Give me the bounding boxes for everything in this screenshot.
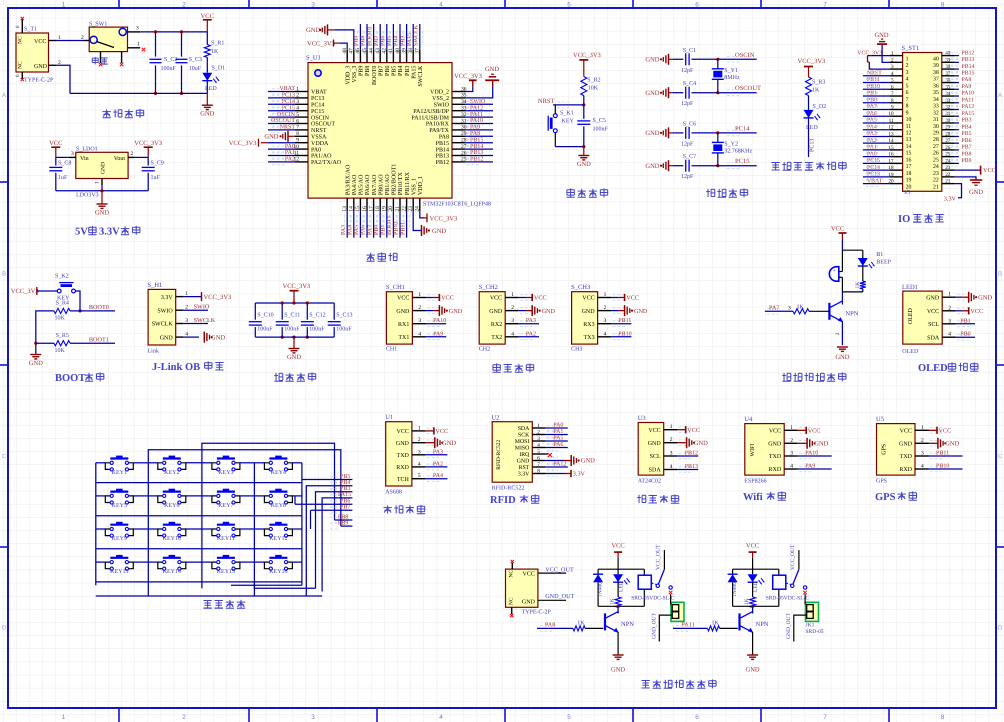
svg-text:VCC_OUT: VCC_OUT [655,544,661,570]
wire net PB10 ST1 left [863,88,890,90]
svg-text:GND: GND [581,458,595,465]
svg-text:PA12/USB/DP: PA12/USB/DP [413,109,449,115]
svg-text:3: 3 [71,151,74,157]
svg-text:KEY11: KEY11 [217,536,235,542]
ground GND relay [747,654,758,656]
svg-text:100nF: 100nF [336,327,352,333]
svg-text:PA7: PA7 [769,305,779,312]
svg-text:KEY12: KEY12 [269,536,287,542]
ground GND U5 [929,442,938,444]
ST1 pin 9 [890,108,903,110]
U1 pin 15 PA5/AO [359,198,361,211]
svg-text:S_C4: S_C4 [683,81,696,87]
svg-text:VCC_OUT: VCC_OUT [545,567,574,574]
svg-text:1: 1 [418,425,421,431]
svg-text:3.3V: 3.3V [161,295,174,301]
S_SW1 pin 2 stub [84,40,89,42]
power VCC CH1 [426,297,433,299]
svg-text:VCC: VCC [746,543,759,550]
svg-text:100nF: 100nF [593,127,609,133]
svg-text:GPS: GPS [876,479,887,485]
ST1 pin 5 [890,82,903,84]
svg-text:IO: IO [898,214,910,225]
svg-text:RFID: RFID [490,495,516,506]
svg-text:SCL: SCL [928,322,939,328]
svg-text:23: 23 [933,171,939,177]
svg-text:VCC_3V3: VCC_3V3 [573,52,601,59]
wire net PC13 ST1 left [863,176,890,178]
svg-text:35: 35 [945,84,951,90]
ST1 pin 26 [942,149,955,151]
svg-text:7: 7 [296,125,299,131]
svg-text:VDD_2: VDD_2 [430,90,449,96]
relay output connector [671,602,684,621]
U1 pin 13 PA3/RX/AO [346,198,348,211]
ST1 pin 32 [942,108,955,110]
svg-text:GND: GND [396,441,410,447]
svg-text:TCH: TCH [397,477,410,483]
wire gnd to VSS_3 pin47 [335,30,354,50]
svg-text:Vin: Vin [80,156,89,162]
svg-text:RST: RST [519,465,530,471]
svg-text:GND: GND [899,442,913,448]
svg-text:8: 8 [941,2,945,9]
svg-text:2: 2 [131,151,134,157]
svg-text:C: C [2,453,7,460]
svg-text:1: 1 [296,86,299,92]
svg-text:21: 21 [933,184,939,190]
svg-text:35: 35 [933,90,939,96]
svg-text:SWCLK: SWCLK [152,322,174,328]
svg-text:S_C7: S_C7 [683,154,696,160]
LED relay indicator [752,569,754,574]
wire net PB8 top of U1 [366,24,368,50]
wire net PB1 oled [956,323,975,325]
svg-text:WIFI: WIFI [750,444,756,457]
svg-text:3: 3 [296,99,299,105]
title 存储模块 [638,495,640,503]
net PA3 U1 [425,454,447,456]
net 3.3V ST1 pin21 [955,184,962,198]
svg-text:12pF: 12pF [681,101,694,107]
svg-text:8: 8 [296,131,299,137]
svg-text:1: 1 [62,2,66,9]
wire net PA0 left of U1 [268,148,295,150]
svg-text:SDA: SDA [649,468,662,474]
svg-text:KEY7: KEY7 [218,503,233,509]
net PA10 U4 [798,455,832,457]
U1 pin 12 PA2/TX/AO [295,161,308,163]
U1 pin 34 SWIO [452,103,465,105]
wire net PA10 CH1 [426,323,446,325]
svg-text:U2: U2 [492,415,500,422]
svg-text:RXD: RXD [769,467,782,473]
svg-text:S_R5: S_R5 [56,333,69,339]
wire net PB10 CH3 [611,336,631,338]
U1 pin 40 PB4 [399,50,401,63]
key KEY8 [269,491,287,493]
svg-text:J-Link OB: J-Link OB [152,362,200,373]
svg-text:TX3: TX3 [584,335,595,341]
svg-text:VCC: VCC [927,309,939,315]
svg-text:33: 33 [933,104,939,110]
svg-text:1: 1 [891,51,894,57]
svg-text:22: 22 [401,206,407,212]
svg-text:10K: 10K [55,348,66,354]
wire S_C1 to net [692,58,757,60]
svg-text:17: 17 [906,164,912,170]
svg-text:U4: U4 [744,416,753,423]
ST1 pin 37 [942,75,955,77]
transistor NPN relay [604,613,606,630]
svg-text:TX2: TX2 [491,335,502,341]
svg-text:PB10: PB10 [867,84,880,90]
U1 pin 20 PB2/BOOT1 [392,198,394,211]
svg-text:KEY: KEY [562,119,575,125]
U1 pin 28 PB15 [452,142,465,144]
svg-text:1: 1 [95,181,101,184]
wire emitter relay to gnd [752,632,754,655]
svg-text:VCC: VCC [939,428,952,435]
svg-text:S_K2: S_K2 [55,274,69,280]
svg-text:PA8: PA8 [962,77,972,83]
wire net SWCLK [184,323,208,325]
wire base relay1 [585,627,603,629]
svg-text:32: 32 [945,104,951,110]
capacitor S_C11 100nF [281,303,283,320]
key KEY1 [110,457,128,459]
svg-text:15: 15 [906,151,912,157]
S_SW1 pin 3 stub [128,31,141,33]
svg-text:100nF: 100nF [161,66,177,72]
svg-text:4: 4 [418,331,421,337]
svg-text:22: 22 [933,178,939,184]
svg-text:2: 2 [182,714,186,721]
wire D1 to rail [206,81,208,94]
svg-text:U5: U5 [876,416,884,423]
svg-text:GND: GND [287,354,301,361]
wire GND_OUT [538,599,566,601]
wire cap C3 branch [181,32,183,57]
resistor S_R3 1K [806,77,812,96]
svg-text:8: 8 [906,104,909,110]
svg-text:KEY14: KEY14 [163,569,181,575]
svg-text:22: 22 [945,172,951,178]
svg-text:IRQ: IRQ [519,452,530,458]
svg-text:PB6: PB6 [385,66,391,76]
U1 pin 37 SWCLK [419,50,421,63]
ST1 pin 20 [890,183,903,185]
svg-text:40: 40 [945,51,951,57]
wire net PB9 top of U1 [359,24,361,50]
relay coil [643,569,645,575]
svg-text:NC: NC [18,61,24,69]
ST1 pin 27 [942,142,955,144]
svg-text:S_CH1: S_CH1 [386,284,405,291]
wire S_C7 to net [692,165,757,167]
wires buzzer contacts [839,271,843,273]
svg-text:9: 9 [906,110,909,116]
power VCC U1 [425,430,434,432]
U1 pin 16 PA6/AO [366,198,368,211]
power VCC CH2 [519,297,526,299]
wire net PA12 ST1 right [955,108,959,110]
ST1 pin 1 [890,55,903,57]
net PB10 U5 [929,468,963,470]
capacitor S_C1 12pF [685,53,687,65]
svg-text:S_C3: S_C3 [189,57,202,63]
svg-text:3: 3 [948,318,951,324]
ST1 pin 29 [942,129,955,131]
svg-text:S_CH2: S_CH2 [479,284,498,291]
svg-text:GND: GND [442,440,456,447]
svg-text:OSCIN: OSCIN [735,52,755,59]
title 声光报警电路 [783,373,785,381]
wire connector bottom pin GND_OUT [659,615,672,641]
svg-text:4: 4 [921,464,924,470]
wire net PA10 ST1 right [955,95,959,97]
svg-text:4: 4 [418,461,421,467]
svg-text:S_R3: S_R3 [812,80,825,86]
matrix row bottom lines [96,482,302,484]
svg-text:PB0/AO: PB0/AO [378,174,384,195]
svg-text:OLED: OLED [918,363,948,374]
svg-text:2: 2 [537,430,540,436]
resistor 1K relay led [752,582,754,597]
wire net PA6 ST1 left [863,115,890,117]
svg-text:2: 2 [418,437,421,443]
wire net PA8 right of U1 [465,135,493,137]
ST1 pin 34 [942,95,955,97]
svg-text:1: 1 [921,425,924,431]
wire VDD_1 to vcc [420,211,424,218]
svg-text:S_C9: S_C9 [151,161,164,167]
ST1 pin 2 [890,61,903,63]
wire net NRST left of U1 [268,129,295,131]
svg-text:4: 4 [439,714,443,721]
svg-text:PA1: PA1 [285,150,295,156]
svg-text:VCC: VCC [900,429,912,435]
svg-text:7: 7 [823,714,827,721]
svg-text:GND: GND [611,667,625,674]
svg-text:KEY5: KEY5 [112,503,127,509]
svg-text:S_T1: S_T1 [24,27,37,33]
U1 pin 18 PB0/AO [379,198,381,211]
net label PA11 [673,627,708,629]
ground GND U3 [677,442,686,444]
key KEY15 [217,557,235,559]
svg-text:PC14: PC14 [735,125,750,132]
svg-text:CH2: CH2 [479,347,490,353]
U1 pin 17 PA7/AO [373,198,375,211]
ST1 pin 17 [890,162,903,164]
svg-text:PC13: PC13 [311,96,324,102]
svg-text:3: 3 [418,449,421,455]
svg-text:PA0: PA0 [553,423,563,429]
svg-text:GND: GND [449,308,463,315]
svg-text:PB12: PB12 [436,160,449,166]
svg-text:PA9: PA9 [962,84,972,90]
svg-text:VDD_3: VDD_3 [345,66,351,85]
wire ldo gnd [101,185,103,190]
svg-text:PA8: PA8 [439,135,449,141]
ST1 pin 31 [942,115,955,117]
U1 pin 44 BOOT0 [373,50,375,63]
svg-text:NC: NC [509,597,515,605]
svg-text:21: 21 [395,206,401,212]
svg-text:GND: GND [969,189,983,196]
key KEY10 [163,524,181,526]
svg-text:PC15: PC15 [311,109,324,115]
ST1 pin 13 [890,135,903,137]
svg-text:VCC: VCC [831,226,844,233]
svg-text:5: 5 [906,83,909,89]
capacitor S_C10 100nF [254,303,256,320]
svg-text:GPS: GPS [882,444,888,455]
U1 pin 39 PB3 [406,50,408,63]
svg-text:32: 32 [933,110,939,116]
svg-text:GND_OUT: GND_OUT [545,593,574,600]
wire net BOOT1 bottom of U1 [392,211,394,238]
svg-text:LED: LED [619,581,625,592]
svg-text:PA4: PA4 [433,473,443,479]
svg-text:VCC_3V3: VCC_3V3 [307,41,335,48]
svg-text:PC14: PC14 [867,165,880,171]
svg-text:3.3V: 3.3V [99,227,120,238]
svg-text:VSS_3: VSS_3 [352,66,358,83]
matrix key stubs [96,462,106,464]
matrix bottom bus 1 [254,582,315,588]
svg-text:NPN: NPN [756,621,769,628]
svg-text:TX1: TX1 [398,335,409,341]
svg-text:BOOT0: BOOT0 [89,304,109,311]
svg-text:PA3: PA3 [526,318,536,324]
svg-text:2: 2 [948,305,951,311]
svg-text:S_H1: S_H1 [148,282,163,289]
svg-text:PB8: PB8 [338,514,348,520]
svg-text:GND: GND [432,228,446,235]
bottom rail ldo [56,190,148,192]
wire R5 to BOOT1 [70,342,115,344]
U1 pin 24 VDD_1 [419,198,421,211]
svg-text:5: 5 [537,449,540,455]
svg-text:PB3: PB3 [405,66,411,76]
svg-text:1K: 1K [855,282,861,289]
svg-text:1uF: 1uF [58,175,68,181]
svg-text:8: 8 [537,469,540,475]
U1 pin 21 PB10/TX [399,198,401,211]
svg-text:2: 2 [418,305,421,311]
wire net PB3 top of U1 [406,24,408,50]
matrix top wire 2 [148,450,340,526]
svg-text:VBAT: VBAT [867,178,883,184]
net PB13 U3 [677,469,698,471]
svg-text:12: 12 [906,131,912,137]
svg-text:30: 30 [945,118,951,124]
svg-text:TXD: TXD [900,454,913,460]
svg-text:6: 6 [695,714,699,721]
S_SW1 pin 1 stub with no-connect [128,47,141,49]
svg-text:VCC: VCC [397,429,409,435]
S_LDO1 pin 1 GND stub [101,179,103,186]
svg-text:NRST: NRST [538,98,555,105]
ST1 pin 6 [890,88,903,90]
svg-text:GND: GND [645,90,659,97]
svg-text:RFID-RC522: RFID-RC522 [496,440,502,470]
svg-text:38: 38 [933,70,939,76]
net VCC_3V3 ST1 pin1 [868,55,890,57]
svg-text:KEY4: KEY4 [271,470,286,476]
ST1 pin 14 [890,142,903,144]
resistor 1K alarm [862,266,864,281]
U1 pin 3 PC14 [295,103,308,105]
svg-text:GND: GND [694,440,708,447]
svg-text:32.768KHz: 32.768KHz [724,148,752,154]
svg-text:6: 6 [537,456,540,462]
svg-text:1K: 1K [211,49,219,55]
svg-text:KEY1: KEY1 [112,470,127,476]
capacitor S_C9 1uF [147,157,149,165]
svg-text:1: 1 [62,714,66,721]
wire T1 GND down to bottom rail [57,65,70,93]
svg-text:SWIO: SWIO [434,103,450,109]
power VCC CH3 [611,297,618,299]
svg-text:GND: GND [396,309,410,315]
svg-text:GND: GND [814,441,828,448]
transistor Q1 NPN alarm [828,303,830,320]
net label VCC_3V3 at VDDA pin9 [261,142,268,144]
svg-text:PB11/RX: PB11/RX [405,171,411,195]
svg-text:29: 29 [933,131,939,137]
svg-text:OLED: OLED [908,307,914,324]
svg-text:4: 4 [296,106,299,112]
svg-text:SDA: SDA [927,335,940,341]
svg-text:S_R4: S_R4 [56,301,69,307]
svg-text:GND: GND [160,335,174,341]
svg-text:KEY2: KEY2 [164,470,179,476]
svg-text:30: 30 [933,124,939,130]
wire connector bottom pin GND_OUT [794,615,807,641]
net PA9 U4 [798,468,832,470]
svg-text:GND: GND [746,667,760,674]
relay bottom rail [598,605,644,607]
ground GND CH2 [519,310,526,312]
svg-text:GND: GND [926,295,940,301]
U1 pin 33 PA12/USB/DP [452,110,465,112]
svg-text:MOSI: MOSI [515,439,530,445]
svg-text:VCC: VCC [687,427,700,434]
S_T1 no-connect pins [21,20,23,34]
U1 pin 23 VSS_1 [412,198,414,211]
relay top rail [733,568,779,570]
net label PB6 wire [295,503,352,505]
svg-text:31: 31 [945,111,951,117]
wire vcc down [841,240,843,250]
svg-text:8: 8 [941,714,945,721]
svg-text:VCC: VCC [490,296,502,302]
wire net PC14 ST1 left [863,169,890,171]
svg-text:100nF: 100nF [284,327,300,333]
key KEY12 [269,524,287,526]
svg-text:VCC: VCC [626,295,639,302]
svg-text:RX2: RX2 [491,322,502,328]
svg-text:RX3: RX3 [583,322,594,328]
wire net PA1 left of U1 [268,155,295,157]
svg-text:PB7: PB7 [340,505,350,511]
svg-text:1: 1 [137,41,140,47]
net PA2 U1 [425,466,447,468]
wire R2 to NRST node [583,96,585,105]
